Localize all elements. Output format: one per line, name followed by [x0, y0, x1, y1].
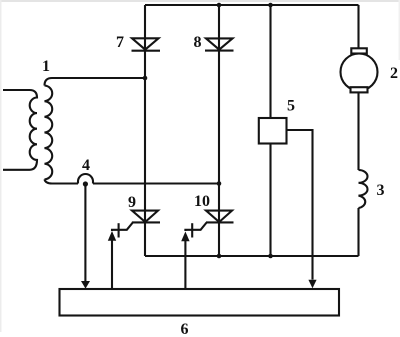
diode 7 — [132, 38, 161, 50]
wire top rail — [145, 4, 359, 6]
thyristor 9 — [112, 211, 160, 238]
junction dot top rail / diode8 branch — [217, 3, 222, 8]
transformer T1 secondary winding — [45, 86, 53, 180]
junction dot bus / box5 bottom lead — [268, 254, 273, 259]
svg-text:6: 6 — [181, 321, 189, 337]
wire mid horizontal (node 4 to thyristor 10 branch) — [93, 182, 219, 184]
node 4 crossover hump — [78, 174, 93, 184]
wire box5 bottom lead — [269, 144, 271, 257]
block 6 (control unit) — [60, 289, 340, 316]
wire transformer secondary bottom lead to node 4 — [45, 179, 79, 183]
svg-text:3: 3 — [377, 182, 385, 199]
wire node 4 drop to block 6 — [84, 186, 86, 282]
svg-text:9: 9 — [128, 194, 136, 211]
wire right rail inductor-to-bus — [357, 208, 359, 256]
wire box5 right side lead — [287, 130, 313, 280]
box 5 — [259, 118, 287, 144]
transformer T1 primary winding — [3, 90, 37, 170]
svg-text:5: 5 — [287, 98, 295, 115]
frame left edge — [0, 0, 2, 332]
svg-text:8: 8 — [194, 34, 202, 51]
thyristor 9 gate pulse arrow — [108, 231, 116, 289]
node 4 dot — [83, 181, 88, 186]
diode 8 — [205, 38, 234, 50]
wire right rail upper (to motor) — [357, 5, 359, 49]
svg-text:1: 1 — [42, 58, 50, 75]
wire diode 8 / thyristor 10 vertical — [218, 5, 220, 256]
svg-text:10: 10 — [194, 193, 210, 210]
svg-text:2: 2 — [390, 65, 398, 82]
thyristor 10 — [185, 211, 233, 238]
frame right edge — [399, 0, 400, 60]
frame top edge — [0, 0, 400, 2]
wire right rail motor-to-inductor — [357, 93, 359, 171]
junction dot bus / thyristor10 branch — [217, 254, 222, 259]
wire box5 top lead — [269, 5, 271, 118]
junction dot top rail / box5 lead — [268, 3, 273, 8]
svg-text:4: 4 — [82, 157, 90, 174]
svg-text:7: 7 — [116, 34, 124, 51]
junction dot secondary lead / diode7 branch — [143, 76, 148, 81]
thyristor 10 gate pulse arrow — [181, 232, 189, 290]
junction dot mid wire / thyristor10 branch — [217, 181, 222, 186]
down arrow from node 4 line into block 6 — [81, 281, 90, 289]
down arrow from box 5 side line into block 6 — [308, 280, 316, 288]
inductor 3 — [359, 170, 368, 208]
wire left vertical (diode 7 / thyristor 9 branch) — [144, 5, 146, 256]
wire bottom bus — [145, 255, 359, 257]
wire transformer secondary top lead — [45, 78, 146, 86]
motor M2 — [341, 48, 378, 92]
